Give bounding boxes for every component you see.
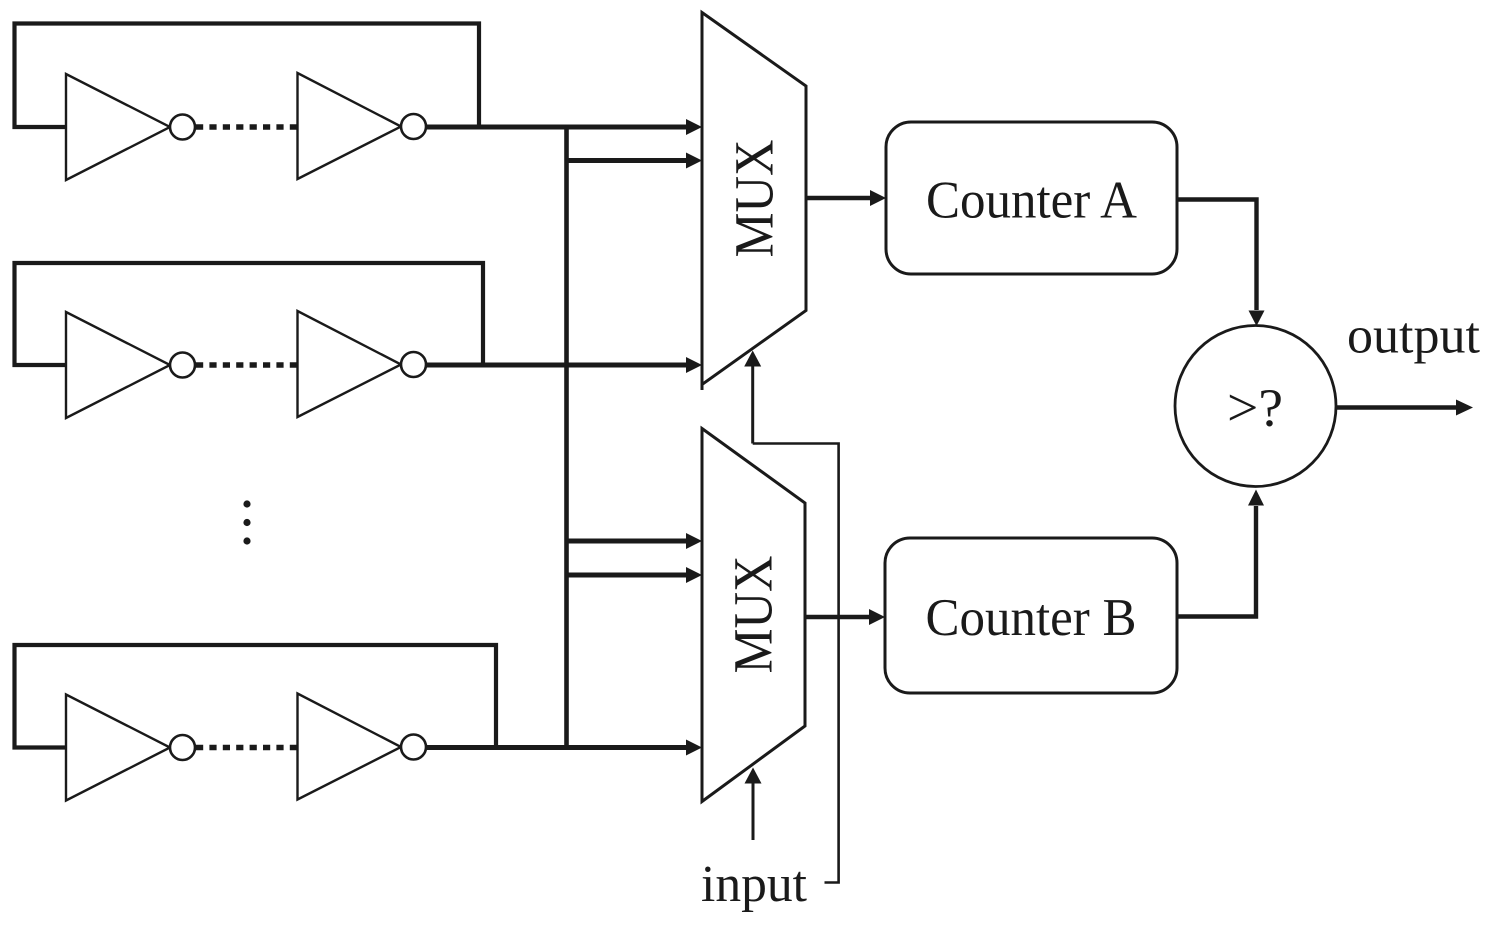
svg-text:>?: >? bbox=[1227, 378, 1283, 438]
svg-text:input: input bbox=[701, 856, 808, 913]
svg-text:MUX: MUX bbox=[723, 556, 784, 674]
svg-text:output: output bbox=[1347, 308, 1480, 365]
svg-text:Counter B: Counter B bbox=[926, 589, 1137, 647]
svg-text:Counter A: Counter A bbox=[926, 172, 1137, 230]
svg-text:MUX: MUX bbox=[724, 140, 785, 258]
